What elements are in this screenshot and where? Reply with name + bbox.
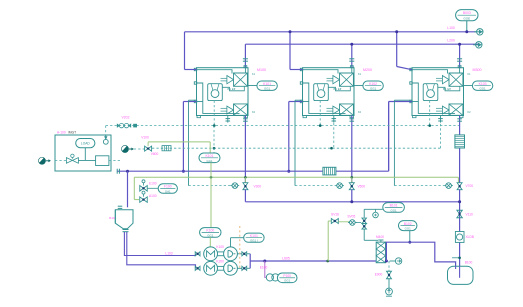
svg-text:E900: E900 (375, 273, 383, 277)
svg-text:B1 Eff: B1 Eff (443, 87, 451, 91)
svg-text:GG1: GG1 (480, 87, 486, 91)
svg-text:GG1: GG1 (405, 227, 411, 231)
svg-text:E100: E100 (260, 265, 268, 269)
svg-text:M300: M300 (473, 68, 482, 72)
svg-text:M400: M400 (376, 235, 384, 239)
svg-text:B003: B003 (463, 11, 471, 15)
svg-text:K1: K1 (358, 73, 362, 76)
svg-text:/MGT: /MGT (68, 130, 76, 134)
svg-text:GG1: GG1 (284, 279, 290, 283)
svg-text:A-100: A-100 (57, 130, 66, 134)
svg-text:SV16: SV16 (331, 213, 339, 217)
svg-text:B1 Eff: B1 Eff (228, 87, 236, 91)
svg-text:GG1: GG1 (370, 87, 376, 91)
svg-text:M200: M200 (363, 68, 372, 72)
svg-text:E100: E100 (149, 181, 157, 185)
svg-text:XLDB: XLDB (466, 235, 474, 239)
svg-text:K100: K100 (206, 229, 214, 233)
svg-text:GGE: GGE (463, 16, 470, 20)
svg-text:GG1: GG1 (206, 159, 212, 163)
svg-text:V202: V202 (122, 116, 130, 120)
svg-text:V300: V300 (254, 185, 262, 189)
svg-text:K102: K102 (369, 82, 377, 86)
svg-text:P100: P100 (283, 274, 291, 278)
svg-text:K2: K2 (252, 111, 256, 114)
svg-text:L100: L100 (447, 26, 455, 30)
svg-text:LOAD: LOAD (81, 142, 90, 146)
svg-text:GG1 I: GG1 I (250, 239, 258, 243)
svg-text:V110: V110 (466, 212, 474, 216)
svg-text:K101: K101 (263, 82, 271, 86)
svg-text:K103: K103 (479, 82, 487, 86)
svg-text:K2: K2 (468, 111, 472, 114)
svg-text:B100: B100 (465, 261, 473, 265)
svg-text:L605: L605 (282, 256, 290, 260)
svg-text:K1: K1 (252, 73, 256, 76)
svg-text:B102: B102 (404, 222, 412, 226)
svg-text:K100: K100 (216, 245, 224, 249)
svg-text:B10: B10 (109, 216, 115, 220)
svg-text:F100: F100 (164, 185, 172, 189)
svg-text:L200: L200 (447, 39, 455, 43)
svg-text:K200: K200 (216, 260, 224, 264)
svg-text:K101: K101 (206, 154, 214, 158)
svg-text:GG1: GG1 (207, 233, 213, 237)
svg-text:V800: V800 (151, 152, 159, 156)
svg-text:SV05: SV05 (347, 214, 355, 218)
svg-text:V500: V500 (358, 185, 366, 189)
svg-text:V100: V100 (141, 136, 149, 140)
svg-text:GA1: GA1 (165, 190, 171, 194)
svg-text:K2: K2 (358, 111, 362, 114)
svg-text:A100: A100 (149, 194, 157, 198)
svg-text:K101: K101 (250, 234, 258, 238)
svg-text:M100: M100 (257, 68, 266, 72)
svg-text:L103: L103 (165, 251, 172, 255)
svg-text:B101: B101 (390, 204, 398, 208)
svg-text:K1: K1 (468, 73, 472, 76)
svg-text:GG1: GG1 (391, 208, 397, 212)
svg-text:V700: V700 (466, 184, 474, 188)
svg-text:B1 Eff: B1 Eff (334, 87, 342, 91)
svg-text:GG1: GG1 (264, 87, 270, 91)
